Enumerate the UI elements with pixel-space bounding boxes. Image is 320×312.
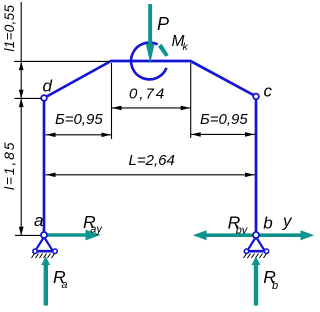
svg-text:k: k: [183, 41, 189, 53]
dim arrow down at 235.4 (above): [19, 227, 24, 236]
dim arrow down at 98.4 (above): [19, 90, 24, 99]
dimension left Б=0,95: [46, 134, 112, 136]
dimension 0,74 line: [112, 107, 191, 109]
svg-text:l1=0,55: l1=0,55: [2, 5, 17, 52]
moment Mk circle arc: [131, 43, 166, 80]
reaction Ray arrow at a: [47, 233, 87, 237]
node d: [41, 95, 47, 101]
node c: [253, 94, 259, 100]
svg-text:c: c: [264, 82, 273, 101]
svg-text:ay: ay: [90, 224, 103, 236]
support b hatching: [244, 254, 267, 259]
support a: triangle: [35, 237, 53, 251]
reaction Ra arrow: [44, 265, 48, 306]
svg-text:0,74: 0,74: [129, 85, 166, 102]
svg-text:Б=0,95: Б=0,95: [200, 111, 248, 128]
svg-text:P: P: [157, 14, 169, 34]
y axis double arrow at b: [205, 233, 302, 237]
support a hatching: [32, 254, 55, 259]
dimension: left vertical dim line: [20, 2, 22, 235]
wire: left column d-a: [43, 98, 46, 235]
svg-text:y: y: [282, 212, 293, 231]
dimension right Б=0,95: [191, 133, 255, 135]
wire: left diagonal member: [44, 61, 111, 98]
dim arrow up at 61.4: [19, 62, 24, 71]
svg-text:a: a: [61, 279, 67, 291]
svg-text:b: b: [272, 280, 278, 292]
wire: top horizontal member: [111, 60, 192, 63]
svg-text:l=1,85: l=1,85: [1, 141, 17, 190]
extension line a level: [15, 234, 41, 236]
svg-text:Б=0,95: Б=0,95: [55, 111, 103, 128]
wire: right diagonal member: [191, 61, 257, 96]
svg-text:d: d: [43, 77, 53, 96]
support b: triangle: [247, 237, 265, 251]
moment Mk arrowhead: [158, 44, 169, 57]
extension line below top-right corner: [190, 63, 192, 138]
svg-text:L=2,64: L=2,64: [129, 152, 175, 169]
svg-text:b: b: [263, 214, 272, 233]
svg-text:bv: bv: [236, 225, 249, 237]
extension line top member level: [14, 60, 110, 62]
extension line d level: [15, 97, 42, 99]
support a rollers: [33, 249, 37, 253]
wire: right column c-b: [255, 96, 258, 235]
node a pin circle: [41, 232, 47, 238]
dimension L=2,64: [46, 174, 256, 176]
dim arrow up at 98.4 (below): [19, 99, 24, 108]
extension line below top-left corner: [111, 63, 113, 139]
support b rollers: [244, 249, 248, 253]
reaction Rb arrow: [254, 265, 258, 306]
node b pin circle: [253, 232, 259, 238]
svg-text:a: a: [34, 211, 43, 230]
force P arrow: [148, 4, 152, 45]
